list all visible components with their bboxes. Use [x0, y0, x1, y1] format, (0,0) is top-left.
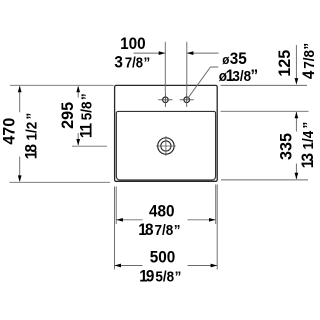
svg-text:125: 125: [275, 50, 294, 77]
svg-text:100: 100: [120, 34, 146, 53]
svg-text:ø13/8”: ø13/8”: [219, 66, 258, 85]
svg-text:295: 295: [58, 102, 77, 129]
faucet hole left: [158, 93, 172, 107]
svg-text:37/8”: 37/8”: [114, 53, 150, 72]
dim 480 (bottom): [117, 219, 216, 221]
svg-text:187/8”: 187/8”: [138, 220, 180, 239]
faucet hole right: [180, 93, 194, 107]
extension lines below basin: [115, 185, 218, 270]
svg-text:47/8”: 47/8”: [299, 43, 318, 79]
svg-text:335: 335: [276, 133, 295, 160]
svg-text:131/4”: 131/4”: [298, 122, 317, 169]
svg-text:500: 500: [150, 248, 176, 267]
svg-text:480: 480: [149, 202, 175, 221]
svg-text:470: 470: [0, 118, 19, 145]
drain: [156, 136, 176, 156]
svg-text:195/8”: 195/8”: [139, 267, 181, 286]
dim 125 (right top): [221, 45, 308, 85]
basin outer rim: [115, 85, 218, 181]
dim 470 (far left): [9, 85, 113, 182]
svg-text:181/2”: 181/2”: [22, 113, 41, 160]
basin inner bowl: [116, 111, 215, 180]
leader to faucet hole: [188, 67, 219, 99]
dim 100 (top): [134, 42, 219, 93]
svg-text:115/8”: 115/8”: [77, 93, 96, 138]
dim 295 (left): [72, 87, 107, 147]
dim 500 (bottom): [115, 265, 217, 267]
dim 335 (right): [221, 111, 309, 180]
